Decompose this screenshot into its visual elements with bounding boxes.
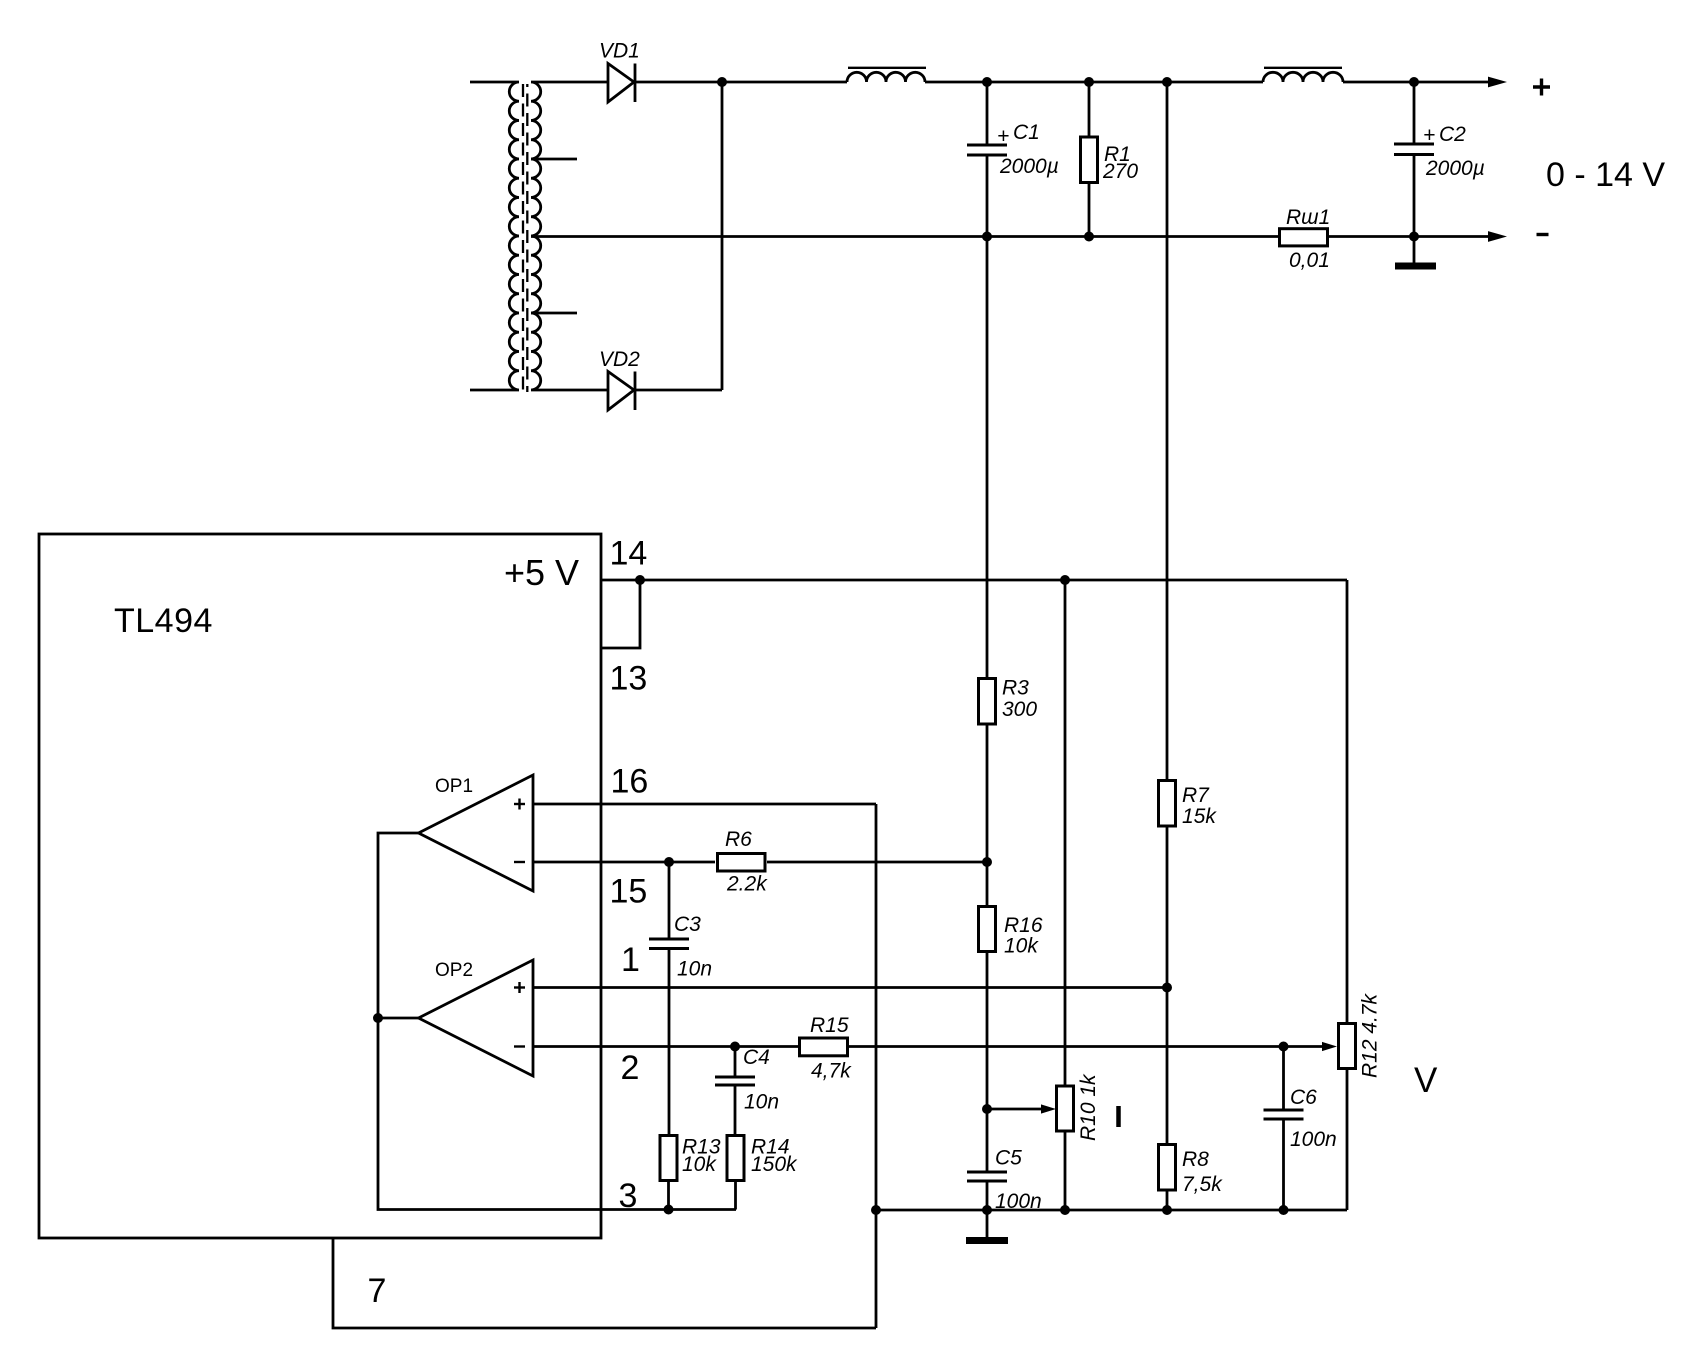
wire R6 to R3/R16 junction bbox=[767, 861, 987, 864]
svg-text:V: V bbox=[1414, 1061, 1438, 1100]
node C2 bottom bbox=[1409, 232, 1419, 242]
node C2 top bbox=[1409, 77, 1419, 87]
svg-text:0 - 14 V: 0 - 14 V bbox=[1546, 156, 1665, 194]
svg-text:7: 7 bbox=[368, 1272, 387, 1310]
svg-text:R15: R15 bbox=[810, 1014, 849, 1037]
svg-text:R12 4.7k: R12 4.7k bbox=[1359, 992, 1382, 1078]
resistor R13 bbox=[660, 1136, 677, 1210]
svg-text:150k: 150k bbox=[751, 1153, 798, 1176]
node C1 top bbox=[982, 77, 992, 87]
svg-text:0,01: 0,01 bbox=[1289, 249, 1330, 272]
R10 wiper arrow shaft bbox=[987, 1108, 1042, 1111]
svg-text:R10 1k: R10 1k bbox=[1077, 1073, 1100, 1141]
label plus output bbox=[1533, 79, 1550, 96]
wire +5V down to R12 bbox=[1346, 580, 1349, 1022]
node R8 bottom bbox=[1162, 1205, 1172, 1215]
plus output arrowhead bbox=[1488, 77, 1507, 88]
svg-text:3: 3 bbox=[619, 1177, 638, 1215]
capacitor C1 bbox=[967, 82, 1007, 237]
svg-text:10k: 10k bbox=[1004, 935, 1039, 958]
svg-text:2000µ: 2000µ bbox=[1425, 157, 1485, 180]
wire pin 15 OP1 minus input bbox=[533, 861, 715, 864]
potentiometer R12 bbox=[1339, 1024, 1356, 1211]
ground under C5 bbox=[966, 1210, 1008, 1241]
svg-text:10n: 10n bbox=[744, 1091, 779, 1114]
wire pin 3 to R13 R14 bbox=[601, 1208, 736, 1211]
svg-text:10k: 10k bbox=[682, 1153, 717, 1176]
diode VD2 bbox=[608, 372, 635, 411]
capacitor C5 bbox=[967, 1109, 1007, 1210]
svg-text:270: 270 bbox=[1102, 160, 1138, 183]
wire Rsh1 to minus output bbox=[1328, 235, 1490, 238]
potentiometer R10 bbox=[1057, 1086, 1074, 1210]
node R6 right R3 R16 junction bbox=[982, 857, 992, 867]
svg-text:R8: R8 bbox=[1182, 1148, 1209, 1171]
ground rail bbox=[876, 1209, 1347, 1212]
resistor R15 bbox=[800, 1038, 848, 1056]
node R7 column top bbox=[1162, 77, 1172, 87]
ground under C2 bbox=[1395, 237, 1436, 267]
resistor R1 bbox=[1081, 82, 1098, 237]
resistor R14 bbox=[727, 1136, 744, 1210]
transformer T1 secondary winding bbox=[531, 82, 607, 390]
capacitor C6 bbox=[1264, 1047, 1304, 1211]
wire R15 to R12 wiper bbox=[848, 1045, 1322, 1048]
svg-text:14: 14 bbox=[610, 535, 648, 573]
svg-text:1: 1 bbox=[621, 941, 640, 979]
inductor L1 core bar bbox=[848, 67, 926, 69]
svg-text:2: 2 bbox=[621, 1049, 640, 1087]
svg-text:+: + bbox=[997, 125, 1009, 148]
svg-text:Rш1: Rш1 bbox=[1286, 206, 1330, 229]
wire VD1 cathode to node A bbox=[635, 81, 847, 84]
resistor R3 bbox=[979, 237, 996, 863]
diode VD1 bbox=[608, 64, 635, 103]
wire +5V down to R10 bbox=[1064, 580, 1067, 1085]
transformer T1 core bbox=[523, 84, 527, 392]
wire pin 16 OP1 plus input bbox=[533, 803, 876, 806]
wire pin 2 OP2 minus input bbox=[533, 1045, 799, 1048]
wire L2 to plus output bbox=[1343, 81, 1490, 84]
node C3 top bbox=[664, 857, 674, 867]
svg-text:2.2k: 2.2k bbox=[726, 873, 768, 896]
wire pin 13 stub bbox=[601, 580, 640, 648]
svg-text:OP1: OP1 bbox=[435, 776, 473, 797]
wire pin 14 +5V rail bbox=[601, 579, 1347, 582]
svg-text:+5 V: +5 V bbox=[504, 552, 579, 593]
svg-text:16: 16 bbox=[611, 763, 649, 801]
svg-text:C1: C1 bbox=[1013, 121, 1040, 144]
node R10 bottom bbox=[1060, 1205, 1070, 1215]
node R10 wiper branch bbox=[982, 1104, 992, 1114]
svg-text:15: 15 bbox=[610, 873, 648, 911]
svg-text:+: + bbox=[1423, 124, 1435, 147]
R10 wiper arrowhead bbox=[1041, 1104, 1056, 1113]
wire pin 1 OP2 plus input bbox=[533, 986, 1167, 989]
svg-text:C2: C2 bbox=[1439, 123, 1466, 146]
wire VD2 vertical riser bbox=[721, 82, 724, 390]
R12 wiper arrowhead bbox=[1322, 1042, 1337, 1051]
node C4 top bbox=[730, 1042, 740, 1052]
node C6 top bbox=[1279, 1042, 1289, 1052]
svg-text:300: 300 bbox=[1002, 698, 1037, 721]
svg-text:100n: 100n bbox=[995, 1190, 1042, 1213]
svg-text:7,5k: 7,5k bbox=[1182, 1173, 1223, 1196]
svg-text:15k: 15k bbox=[1182, 805, 1217, 828]
resistor R6 bbox=[718, 854, 766, 872]
svg-text:C5: C5 bbox=[995, 1147, 1022, 1170]
wire OP2 output to feedback bbox=[378, 1017, 419, 1020]
node C1 bottom bbox=[982, 232, 992, 242]
node C5 bottom bbox=[982, 1205, 992, 1215]
wire pin16/pin7 vertical bbox=[875, 804, 878, 1328]
svg-text:R3: R3 bbox=[1002, 677, 1029, 700]
resistor R16 bbox=[979, 862, 996, 1109]
svg-text:OP2: OP2 bbox=[435, 960, 473, 981]
IC U1 TL494 outline bbox=[39, 534, 601, 1238]
label I current adjust bbox=[1116, 1106, 1121, 1127]
wire VD2 cathode to riser bbox=[635, 389, 722, 392]
wire pin 7 loop bbox=[333, 1238, 876, 1328]
secondary upper tap stub bbox=[531, 158, 577, 161]
svg-text:C4: C4 bbox=[743, 1046, 770, 1069]
inductor L1 bbox=[847, 72, 925, 82]
svg-text:C3: C3 bbox=[674, 913, 701, 936]
resistor R7 bbox=[1159, 82, 1176, 988]
op-amp OP2 bbox=[419, 960, 534, 1076]
op-amp OP1 bbox=[419, 775, 534, 891]
node R1 bottom bbox=[1084, 232, 1094, 242]
svg-text:R6: R6 bbox=[725, 828, 752, 851]
secondary lower tap stub bbox=[531, 312, 577, 315]
minus output arrowhead bbox=[1488, 231, 1507, 242]
wire L1 to L2 top rail bbox=[925, 81, 1263, 84]
capacitor C2 bbox=[1394, 82, 1434, 237]
inductor L2 core bar bbox=[1264, 67, 1342, 69]
inductor L2 bbox=[1263, 72, 1343, 82]
node OP2 output feedback bbox=[373, 1013, 383, 1023]
node pin 1 to divider bbox=[1162, 983, 1172, 993]
node C6 bottom bbox=[1279, 1205, 1289, 1215]
svg-text:100n: 100n bbox=[1290, 1128, 1337, 1151]
svg-text:C6: C6 bbox=[1290, 1086, 1317, 1109]
svg-text:VD1: VD1 bbox=[599, 40, 640, 63]
node pin13 branch bbox=[635, 575, 645, 585]
node +5V to R10 bbox=[1060, 575, 1070, 585]
svg-text:TL494: TL494 bbox=[114, 602, 213, 640]
transformer T1 primary winding bbox=[470, 82, 519, 390]
wire OP1 output feedback to pin 3 bbox=[378, 833, 601, 1210]
node ground rail pin7 column bbox=[871, 1205, 881, 1215]
node R1 top bbox=[1084, 77, 1094, 87]
resistor R8 bbox=[1159, 988, 1176, 1211]
svg-text:10n: 10n bbox=[677, 958, 712, 981]
svg-text:2000µ: 2000µ bbox=[999, 155, 1059, 178]
capacitor C3 bbox=[649, 862, 689, 1134]
svg-text:4,7k: 4,7k bbox=[811, 1060, 852, 1083]
svg-text:R7: R7 bbox=[1182, 784, 1210, 807]
node A rectifier output bbox=[717, 77, 727, 87]
label minus output bbox=[1537, 233, 1549, 236]
wire center tap / minus rail bbox=[531, 235, 1278, 238]
node R13 bottom bbox=[664, 1205, 674, 1215]
resistor Rsh1 bbox=[1280, 229, 1328, 246]
svg-text:13: 13 bbox=[610, 660, 648, 698]
capacitor C4 bbox=[715, 1047, 755, 1135]
svg-text:VD2: VD2 bbox=[599, 348, 640, 371]
